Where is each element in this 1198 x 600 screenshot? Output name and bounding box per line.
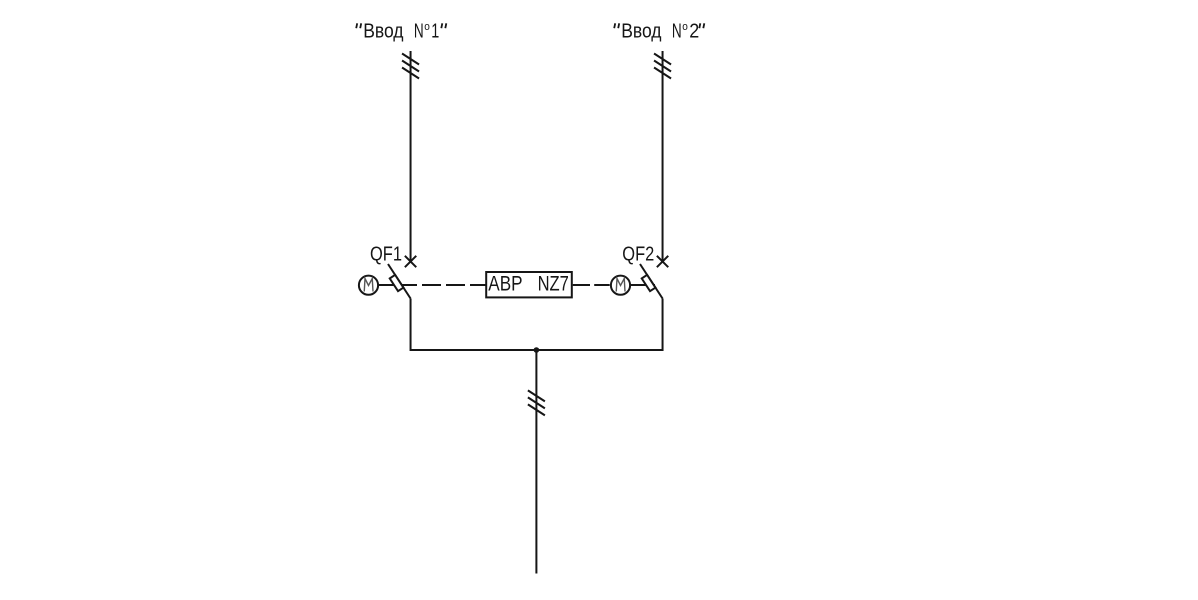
bus wire — [411, 349, 663, 351]
breaker QF1 blade — [388, 264, 411, 299]
wire: feeder 2 incoming vertical — [662, 51, 664, 262]
svg-text:1: 1 — [431, 21, 439, 43]
3-phase mark on feeder 2 — [654, 54, 671, 79]
svg-text:АВР: АВР — [488, 272, 522, 296]
junction dot — [534, 347, 540, 353]
wire: QF1 to bus vertical — [410, 299, 412, 352]
svg-text:2: 2 — [689, 21, 699, 43]
breaker QF1 rectangle (automatic release box) — [390, 275, 404, 291]
wire: M2 to QF2 blade — [630, 284, 655, 286]
svg-text:N: N — [414, 21, 424, 43]
breaker QF2 blade — [640, 264, 663, 299]
motor drive M2 — [611, 276, 630, 295]
svg-text:Ввод: Ввод — [621, 21, 662, 43]
wire: QF2 to bus vertical — [662, 299, 664, 352]
breaker QF2 fixed contact X — [657, 256, 668, 267]
3-phase mark on feeder 1 — [402, 54, 419, 79]
3-phase mark on outgoing feeder — [528, 390, 545, 415]
node "Ввод №1" label — [356, 21, 446, 43]
motor drive M1 — [359, 276, 378, 295]
svg-text:o: o — [424, 21, 430, 33]
svg-text:Ввод: Ввод — [363, 21, 404, 43]
breaker QF1 fixed contact X — [405, 256, 416, 267]
wire: feeder 1 incoming vertical — [410, 51, 412, 262]
wire: outgoing feeder vertical — [535, 350, 537, 574]
dashed control link QF1 to ABP box — [422, 284, 486, 286]
ATS controller box АВР NZ7 — [486, 272, 572, 298]
breaker QF2 rectangle (automatic release box) — [642, 275, 656, 291]
svg-text:QF2: QF2 — [622, 244, 654, 266]
svg-text:NZ7: NZ7 — [538, 272, 569, 296]
dashed control link ABP box to M2 — [573, 284, 611, 286]
wire: motor M1 to QF1 blade (solid then hidden under rect) — [378, 284, 417, 286]
svg-text:N: N — [672, 21, 682, 43]
node "Ввод №2" label — [614, 21, 704, 43]
svg-text:o: o — [682, 21, 688, 33]
svg-text:QF1: QF1 — [370, 244, 402, 266]
